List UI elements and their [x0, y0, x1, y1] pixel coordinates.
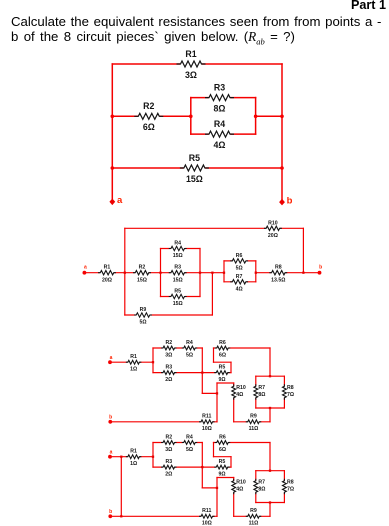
- svg-text:R2: R2: [143, 101, 154, 111]
- svg-text:15Ω: 15Ω: [137, 277, 147, 283]
- svg-text:4Ω: 4Ω: [236, 392, 243, 398]
- svg-text:R7: R7: [258, 480, 265, 486]
- svg-text:10Ω: 10Ω: [202, 521, 212, 526]
- svg-text:R3: R3: [214, 82, 225, 92]
- svg-text:15Ω: 15Ω: [186, 174, 203, 184]
- svg-text:R5: R5: [219, 364, 226, 370]
- svg-text:20Ω: 20Ω: [102, 277, 112, 283]
- svg-text:8Ω: 8Ω: [258, 487, 265, 493]
- svg-text:R1: R1: [104, 265, 111, 271]
- svg-text:a: a: [84, 265, 87, 271]
- svg-text:1Ω: 1Ω: [130, 367, 137, 373]
- svg-text:4Ω: 4Ω: [236, 286, 243, 292]
- svg-text:9Ω: 9Ω: [218, 377, 225, 383]
- svg-text:2Ω: 2Ω: [165, 377, 172, 383]
- svg-text:8Ω: 8Ω: [258, 392, 265, 398]
- svg-text:7Ω: 7Ω: [287, 392, 294, 398]
- svg-text:R2: R2: [139, 265, 146, 271]
- svg-text:15Ω: 15Ω: [173, 277, 183, 283]
- svg-text:R11: R11: [202, 508, 211, 514]
- svg-text:R4: R4: [186, 340, 193, 346]
- svg-text:R6: R6: [236, 253, 243, 259]
- svg-text:R11: R11: [202, 414, 211, 420]
- svg-text:R6: R6: [219, 434, 226, 440]
- svg-text:3Ω: 3Ω: [165, 352, 172, 358]
- svg-text:R7: R7: [258, 385, 265, 391]
- svg-text:11Ω: 11Ω: [249, 521, 259, 526]
- svg-text:7Ω: 7Ω: [287, 487, 294, 493]
- svg-text:R2: R2: [165, 340, 172, 346]
- svg-text:13.5Ω: 13.5Ω: [271, 277, 285, 283]
- svg-text:3Ω: 3Ω: [185, 70, 197, 80]
- svg-text:R9: R9: [250, 414, 257, 420]
- svg-text:R9: R9: [140, 307, 147, 313]
- svg-text:6Ω: 6Ω: [219, 352, 226, 358]
- svg-text:3Ω: 3Ω: [165, 447, 172, 453]
- svg-text:R5: R5: [219, 459, 226, 465]
- svg-text:1Ω: 1Ω: [130, 461, 137, 467]
- svg-text:4Ω: 4Ω: [214, 140, 226, 150]
- svg-text:10Ω: 10Ω: [202, 426, 212, 432]
- svg-text:b: b: [109, 509, 112, 515]
- svg-text:R10: R10: [268, 220, 278, 226]
- svg-text:R4: R4: [214, 119, 225, 129]
- svg-text:b: b: [109, 415, 112, 421]
- svg-text:2Ω: 2Ω: [165, 472, 172, 478]
- svg-text:4Ω: 4Ω: [236, 487, 243, 493]
- svg-text:R3: R3: [174, 265, 181, 271]
- svg-text:5Ω: 5Ω: [139, 320, 146, 326]
- svg-text:a: a: [117, 195, 123, 206]
- svg-text:15Ω: 15Ω: [173, 253, 183, 259]
- svg-text:5Ω: 5Ω: [186, 352, 193, 358]
- svg-text:R5: R5: [189, 153, 200, 163]
- svg-text:b: b: [287, 196, 293, 207]
- svg-text:R1: R1: [130, 354, 137, 360]
- svg-text:R5: R5: [174, 289, 181, 295]
- svg-text:R4: R4: [174, 241, 181, 247]
- svg-text:R4: R4: [186, 434, 193, 440]
- svg-text:R3: R3: [165, 364, 172, 370]
- svg-text:a: a: [110, 355, 113, 361]
- svg-text:6Ω: 6Ω: [219, 447, 226, 453]
- svg-text:R1: R1: [185, 49, 196, 59]
- svg-text:R1: R1: [130, 449, 137, 455]
- svg-text:11Ω: 11Ω: [249, 426, 259, 432]
- svg-text:5Ω: 5Ω: [186, 447, 193, 453]
- svg-text:R7: R7: [236, 274, 243, 280]
- svg-text:R8: R8: [287, 480, 294, 486]
- svg-text:R10: R10: [236, 385, 246, 391]
- svg-text:R8: R8: [275, 265, 282, 271]
- svg-text:b: b: [319, 264, 322, 270]
- svg-text:a: a: [110, 450, 113, 456]
- svg-text:6Ω: 6Ω: [143, 122, 155, 132]
- svg-text:R10: R10: [236, 480, 246, 486]
- svg-text:R8: R8: [287, 385, 294, 391]
- svg-text:8Ω: 8Ω: [214, 103, 226, 113]
- svg-text:15Ω: 15Ω: [173, 301, 183, 307]
- svg-text:9Ω: 9Ω: [218, 472, 225, 478]
- svg-text:R3: R3: [165, 459, 172, 465]
- svg-text:20Ω: 20Ω: [268, 233, 278, 239]
- svg-text:R2: R2: [165, 434, 172, 440]
- svg-text:R6: R6: [219, 340, 226, 346]
- svg-text:5Ω: 5Ω: [236, 266, 243, 272]
- svg-text:R9: R9: [250, 508, 257, 514]
